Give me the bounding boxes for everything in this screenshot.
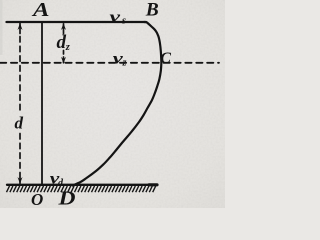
svg-text:z: z: [65, 42, 71, 53]
svg-text:C: C: [160, 50, 171, 67]
svg-text:A: A: [31, 0, 50, 21]
svg-text:B: B: [145, 0, 159, 21]
horizontal dashed line through C: [0, 62, 219, 64]
ground hatching: [7, 186, 156, 192]
arrowheads: [18, 23, 67, 184]
d_z dimension segments: [63, 24, 65, 34]
river bed ground line O-D: [7, 184, 157, 186]
d_z arrow down: [61, 57, 66, 64]
svg-text:D: D: [57, 187, 75, 208]
svg-text:v: v: [110, 9, 122, 26]
d arrow up: [18, 23, 23, 30]
svg-text:O: O: [31, 190, 43, 208]
d dimension dashed line: [19, 24, 21, 34]
svg-text:z: z: [122, 57, 127, 68]
d arrow down: [18, 177, 23, 184]
paper background: [0, 0, 225, 208]
vertical line A-O: [41, 23, 43, 185]
velocity curve B-C-D: [73, 22, 162, 186]
d_z arrow up: [61, 23, 66, 30]
left edge scan smudge: [0, 0, 225, 208]
svg-text:d: d: [15, 113, 24, 132]
water surface line A-B: [7, 21, 147, 23]
svg-text:s: s: [121, 15, 126, 26]
